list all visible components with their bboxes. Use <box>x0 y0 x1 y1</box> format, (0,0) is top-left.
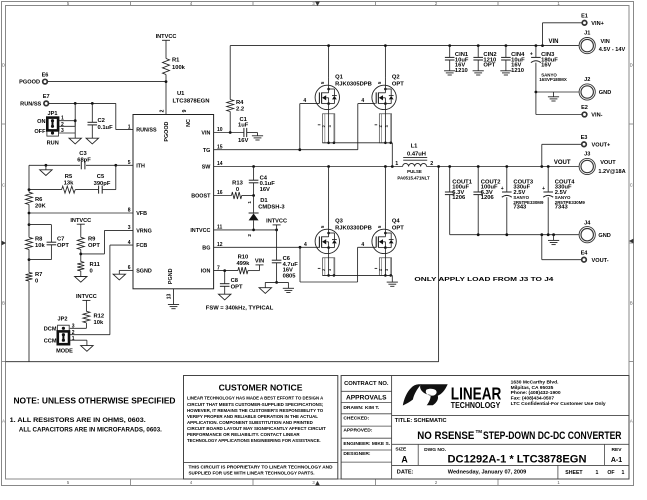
svg-text:VIN+: VIN+ <box>591 21 604 27</box>
svg-text:VOUT: VOUT <box>554 160 571 166</box>
svg-text:RJK0330DPB: RJK0330DPB <box>335 225 372 231</box>
resistor R10 499k <box>238 267 248 274</box>
svg-text:D1: D1 <box>260 198 268 204</box>
svg-text:LTC3878EGN: LTC3878EGN <box>173 99 210 105</box>
svg-text:10k: 10k <box>94 320 104 326</box>
svg-text:INTVCC: INTVCC <box>190 228 210 234</box>
svg-text:SW: SW <box>202 165 212 171</box>
svg-text:E3: E3 <box>581 135 588 141</box>
svg-text:E1: E1 <box>581 14 588 20</box>
ground (C6 left) <box>259 288 271 294</box>
svg-text:20K: 20K <box>35 203 46 209</box>
svg-text:B: B <box>630 301 633 306</box>
svg-text:B: B <box>2 301 5 306</box>
svg-text:3: 3 <box>61 128 64 134</box>
svg-text:16V: 16V <box>541 63 551 69</box>
svg-text:+: + <box>501 186 504 192</box>
svg-text:D: D <box>2 63 5 68</box>
svg-text:J3: J3 <box>584 152 590 158</box>
wire Q3/Q4 source bus + ground <box>323 274 393 276</box>
wire R5/C5 branch <box>29 189 62 191</box>
jack J4 GND <box>579 227 595 243</box>
svg-text:ION: ION <box>201 269 211 275</box>
svg-text:4.5V - 14V: 4.5V - 14V <box>599 47 626 53</box>
svg-text:VIN: VIN <box>601 39 610 45</box>
turret E7 <box>44 101 49 106</box>
svg-text:13k: 13k <box>64 181 74 187</box>
svg-text:4: 4 <box>304 242 307 248</box>
svg-text:VIN: VIN <box>548 39 558 45</box>
resistor R5 13k <box>62 186 76 193</box>
svg-text:16SVP180MX: 16SVP180MX <box>539 77 567 82</box>
svg-text:1206: 1206 <box>452 195 466 201</box>
svg-text:TECHNOLOGY: TECHNOLOGY <box>451 400 501 410</box>
svg-text:1210: 1210 <box>455 68 468 74</box>
svg-text:2: 2 <box>159 109 165 112</box>
svg-text:1206: 1206 <box>481 195 495 201</box>
svg-text:3: 3 <box>328 269 332 271</box>
svg-text:R10: R10 <box>238 254 249 260</box>
capacitor C4 0.1uF <box>253 167 255 181</box>
capacitor COUT2 100uF <box>477 167 479 193</box>
svg-text:VIN: VIN <box>255 259 264 265</box>
svg-text:R12: R12 <box>94 313 105 319</box>
contract/approvals column <box>391 376 393 480</box>
wire BG detour to Q4 <box>299 247 301 282</box>
svg-text:SUPPLIED FOR USE WITH LINEAR T: SUPPLIED FOR USE WITH LINEAR TECHNOLOGY … <box>189 471 316 477</box>
svg-text:7343: 7343 <box>513 204 527 210</box>
svg-text:3: 3 <box>72 323 75 329</box>
svg-text:INTVCC: INTVCC <box>70 218 91 224</box>
svg-text:INTVCC: INTVCC <box>156 34 177 40</box>
op-amp/controller U1 LTC3878EGN body <box>133 115 214 289</box>
svg-text:R5: R5 <box>65 174 73 180</box>
svg-text:16V: 16V <box>260 187 270 193</box>
svg-text:C7: C7 <box>57 237 64 243</box>
svg-text:DCM: DCM <box>44 326 57 332</box>
capacitor C8 OPT <box>224 271 226 284</box>
diode D1 CMDSH-3 <box>253 196 255 214</box>
svg-text:JP2: JP2 <box>58 317 68 323</box>
ground (JP1) <box>69 138 81 144</box>
capacitor CIN1 10uF <box>449 46 451 58</box>
svg-text:ON: ON <box>37 119 45 125</box>
wire TG net <box>214 149 358 151</box>
svg-text:ALL CAPACITORS ARE IN MICROFAR: ALL CAPACITORS ARE IN MICROFARADS, 0603. <box>19 426 162 433</box>
turret E4 VOUT- <box>541 235 543 260</box>
svg-text:KIM T.: KIM T. <box>365 405 380 411</box>
svg-text:C: C <box>630 183 633 188</box>
svg-text:D: D <box>630 63 633 68</box>
svg-text:VIN-: VIN- <box>591 113 602 119</box>
svg-text:BG: BG <box>202 245 210 251</box>
svg-text:PGOOD: PGOOD <box>19 80 40 86</box>
svg-text:VOUT+: VOUT+ <box>592 142 612 148</box>
svg-text:FSW = 340kHz, TYPICAL: FSW = 340kHz, TYPICAL <box>206 306 274 312</box>
svg-text:0: 0 <box>35 278 38 284</box>
wire VFB net <box>29 212 133 214</box>
resistor R7 0 <box>26 273 33 281</box>
capacitor C2 0.1uF <box>91 103 93 122</box>
svg-text:499k: 499k <box>236 261 250 267</box>
svg-text:1210: 1210 <box>511 68 524 74</box>
resistor R6 20K <box>26 192 33 204</box>
svg-text:E2: E2 <box>581 105 588 111</box>
svg-text:L1: L1 <box>411 144 419 150</box>
svg-text:5: 5 <box>320 225 325 228</box>
svg-text:SGND: SGND <box>136 269 152 275</box>
svg-text:A: A <box>2 419 5 424</box>
svg-text:OPT: OPT <box>231 284 243 290</box>
svg-text:SIZE: SIZE <box>395 447 407 453</box>
svg-text:E6: E6 <box>42 72 49 78</box>
transistor Q3 RJK0330DPB <box>328 167 330 222</box>
capacitor COUT1 100uF <box>449 167 451 193</box>
svg-text:2: 2 <box>72 330 75 336</box>
svg-text:RJK0305DPB: RJK0305DPB <box>335 81 372 87</box>
svg-text:MODE: MODE <box>56 349 73 355</box>
svg-text:PGOOD: PGOOD <box>164 121 170 141</box>
jack J2 GND <box>579 84 595 100</box>
svg-text:CCM: CCM <box>44 338 57 344</box>
svg-text:+: + <box>542 186 545 192</box>
svg-text:DWG NO.: DWG NO. <box>424 447 447 453</box>
svg-text:OPT: OPT <box>392 225 404 231</box>
svg-text:C: C <box>2 183 5 188</box>
svg-text:DESIGNER:: DESIGNER: <box>343 451 371 457</box>
resistor R12 10k <box>83 311 90 323</box>
svg-text:2: 2 <box>247 234 252 237</box>
svg-text:9: 9 <box>182 109 188 112</box>
svg-text:LINEAR TECHNOLOGY HAS MADE A B: LINEAR TECHNOLOGY HAS MADE A BEST EFFORT… <box>187 396 324 402</box>
svg-text:TECHNOLOGY APPLICATIONS ENGINE: TECHNOLOGY APPLICATIONS ENGINEERING FOR … <box>187 438 321 444</box>
svg-text:TITLE: SCHEMATIC: TITLE: SCHEMATIC <box>395 418 447 424</box>
svg-text:390pF: 390pF <box>94 181 111 187</box>
resistor R1 100k <box>163 59 170 75</box>
svg-text:NC: NC <box>186 119 192 127</box>
capacitor C3 68pF <box>80 161 86 169</box>
svg-text:0805: 0805 <box>283 274 297 280</box>
title block main box <box>341 376 629 480</box>
svg-text:C2: C2 <box>98 118 105 124</box>
svg-text:3: 3 <box>385 125 389 127</box>
wire VIN pin10 <box>214 132 244 134</box>
svg-text:INTVCC: INTVCC <box>266 219 287 225</box>
svg-text:STEP-DOWN DC-DC CONVERTER: STEP-DOWN DC-DC CONVERTER <box>483 430 622 442</box>
svg-text:OPT: OPT <box>483 63 495 69</box>
ground (R11) <box>75 277 87 283</box>
svg-text:2: 2 <box>430 161 433 167</box>
svg-text:DRAWN:: DRAWN: <box>343 405 363 411</box>
svg-text:2: 2 <box>322 125 326 127</box>
resistor R8 10k <box>28 223 31 226</box>
svg-text:5: 5 <box>377 81 382 84</box>
ground (C1) <box>257 133 259 136</box>
svg-text:TM: TM <box>476 429 483 434</box>
svg-text:0: 0 <box>236 187 239 193</box>
svg-text:Milpitas, CA 95035: Milpitas, CA 95035 <box>511 385 554 391</box>
capacitor C6 4.7uF <box>276 230 278 260</box>
capacitor COUT3 330uF <box>506 167 508 193</box>
svg-text:OPT: OPT <box>392 81 404 87</box>
svg-text:A: A <box>401 454 408 464</box>
wire VIN bus <box>230 45 579 47</box>
wire SW net <box>214 166 403 168</box>
ground (JP2) <box>81 346 93 352</box>
svg-text:1: 1 <box>247 201 252 204</box>
logo LT Linear Technology <box>403 384 422 405</box>
svg-text:1: 1 <box>61 116 64 122</box>
svg-text:ITH: ITH <box>136 163 145 169</box>
wire BOOST + resistor R13 0 <box>214 195 232 197</box>
capacitor C5 390pF <box>98 186 100 194</box>
svg-text:OF: OF <box>607 470 614 476</box>
size/dwg row <box>417 444 419 465</box>
turret E3 VOUT+ <box>541 144 543 166</box>
svg-text:0: 0 <box>90 269 93 275</box>
svg-text:E7: E7 <box>43 94 50 100</box>
svg-text:DC1292A-1 * LTC3878EGN: DC1292A-1 * LTC3878EGN <box>448 453 587 465</box>
ground (C2) <box>86 138 98 144</box>
svg-text:+: + <box>530 51 533 57</box>
svg-text:Q1: Q1 <box>335 75 344 81</box>
transistor Q2 OPT <box>372 85 396 109</box>
svg-text:VRNG: VRNG <box>136 229 152 235</box>
svg-text:R8: R8 <box>35 237 43 243</box>
svg-text:U1: U1 <box>177 91 185 97</box>
customer notice box <box>184 376 338 480</box>
svg-text:R11: R11 <box>90 262 101 268</box>
capacitor CIN3 180uF SANYO <box>535 46 537 58</box>
svg-text:OPT: OPT <box>88 243 100 249</box>
capacitor CIN2 OPT <box>477 46 479 58</box>
svg-text:J1: J1 <box>584 31 590 37</box>
svg-text:APPROVED:: APPROVED: <box>343 427 372 433</box>
svg-text:APPLICATION. COMPONENT SUBSTI: APPLICATION. COMPONENT SUBSTITUTION AND … <box>187 420 313 426</box>
svg-text:CONTRACT NO.: CONTRACT NO. <box>344 381 389 387</box>
capacitor C7 OPT <box>29 224 51 226</box>
svg-text:Wednesday, January 07, 2009: Wednesday, January 07, 2009 <box>448 470 526 476</box>
svg-text:PERFORMANCE OR RELIABILITY. C: PERFORMANCE OR RELIABILITY. CONTACT LINE… <box>187 432 300 438</box>
svg-text:2: 2 <box>379 125 383 127</box>
node INTVCC (pin11) <box>214 229 277 231</box>
wire SGND + ground <box>119 269 133 271</box>
svg-text:Phone: (408)432-1900: Phone: (408)432-1900 <box>511 390 561 396</box>
wire RUN/SS net <box>49 102 116 104</box>
svg-text:RUN/SS: RUN/SS <box>136 128 157 134</box>
wire ION net <box>214 270 238 272</box>
svg-text:10k: 10k <box>35 243 45 249</box>
svg-text:HOWEVER, IT REMAINS THE CUSTOM: HOWEVER, IT REMAINS THE CUSTOMER'S RESPO… <box>187 408 323 414</box>
svg-text:NO RSENSE: NO RSENSE <box>417 430 474 442</box>
svg-text:100k: 100k <box>172 65 186 71</box>
svg-text:5: 5 <box>320 81 325 84</box>
svg-text:ENGINEER: MIKE S.: ENGINEER: MIKE S. <box>343 441 390 447</box>
svg-text:Q2: Q2 <box>392 75 400 81</box>
ground (ITH) <box>40 170 52 176</box>
svg-text:INTVCC: INTVCC <box>76 294 97 300</box>
wire J2 gnd net <box>536 91 579 93</box>
svg-text:LTC Confidential-For Customer: LTC Confidential-For Customer Use Only <box>511 401 606 407</box>
wire VOUT feedback loop <box>438 167 440 362</box>
wire Q1 drain <box>328 46 330 78</box>
resistor R9 OPT <box>77 237 84 249</box>
svg-text:TG: TG <box>203 148 211 154</box>
svg-text:OFF: OFF <box>34 129 46 135</box>
ground (C8) <box>219 294 231 300</box>
svg-text:16V: 16V <box>238 138 248 144</box>
capacitor CIN4 10uF <box>505 46 507 58</box>
svg-text:E4: E4 <box>581 250 589 256</box>
svg-text:GND: GND <box>598 233 610 239</box>
svg-text:C5: C5 <box>97 174 105 180</box>
wire FCB net <box>110 244 133 246</box>
svg-text:NOTE: UNLESS OTHERWISE SPECIFI: NOTE: UNLESS OTHERWISE SPECIFIED <box>14 397 176 406</box>
svg-text:J2: J2 <box>584 77 590 83</box>
svg-text:1: 1 <box>395 161 398 167</box>
svg-text:GND: GND <box>599 90 611 96</box>
svg-text:1: 1 <box>72 336 75 342</box>
svg-text:VERIFY PROPER AND RELIABLE OPE: VERIFY PROPER AND RELIABLE OPERATION IN … <box>187 414 318 420</box>
node VIN tap <box>259 265 261 271</box>
svg-text:1. ALL RESISTORS ARE IN OHMS,: 1. ALL RESISTORS ARE IN OHMS, 0603. <box>10 417 146 424</box>
resistor R11 0 <box>77 262 84 271</box>
svg-text:C3: C3 <box>79 151 87 157</box>
svg-text:13: 13 <box>166 294 172 300</box>
svg-text:APPROVALS: APPROVALS <box>346 394 387 401</box>
svg-text:R4: R4 <box>236 100 244 106</box>
svg-text:VOUT: VOUT <box>600 160 616 166</box>
turret E1 VIN+ <box>542 23 544 46</box>
wire ITH net <box>29 164 116 166</box>
svg-text:THIS CIRCUIT IS PROPRIETARY TO: THIS CIRCUIT IS PROPRIETARY TO LINEAR TE… <box>189 465 333 471</box>
ground (COUT bus) <box>548 239 559 241</box>
ground PGND pin13 <box>173 289 175 304</box>
svg-text:BOOST: BOOST <box>191 194 211 200</box>
svg-text:5: 5 <box>377 225 382 228</box>
svg-text:2: 2 <box>322 269 326 271</box>
svg-text:R1: R1 <box>172 58 180 64</box>
svg-text:CUSTOMER NOTICE: CUSTOMER NOTICE <box>219 382 303 392</box>
svg-text:REV: REV <box>611 447 622 453</box>
svg-text:1: 1 <box>622 470 625 476</box>
wire COUT ground bus <box>450 234 579 236</box>
svg-text:0.47uH: 0.47uH <box>407 151 426 157</box>
svg-text:CIRCUIT BOARD LAYOUT MAY SIGNI: CIRCUIT BOARD LAYOUT MAY SIGNIFICANTLY A… <box>187 426 326 432</box>
svg-text:CHECKED:: CHECKED: <box>343 416 369 422</box>
svg-text:68pF: 68pF <box>77 157 91 163</box>
svg-text:1uF: 1uF <box>238 123 249 129</box>
capacitor COUT4 330uF <box>547 167 549 193</box>
svg-text:FCB: FCB <box>136 243 147 249</box>
svg-text:JP1: JP1 <box>48 111 58 117</box>
transistor Q4 OPT <box>384 167 386 222</box>
svg-text:A-1: A-1 <box>611 457 622 464</box>
svg-text:PULSE: PULSE <box>407 169 422 174</box>
svg-text:VIN: VIN <box>201 131 210 137</box>
ground (C6 right) <box>283 287 294 289</box>
svg-text:R7: R7 <box>35 272 42 278</box>
svg-text:RUN: RUN <box>47 141 59 147</box>
svg-text:2: 2 <box>379 269 383 271</box>
left rail wire <box>28 165 30 192</box>
svg-text:PGND: PGND <box>168 268 174 284</box>
svg-text:4: 4 <box>361 98 364 104</box>
svg-text:CIRCUIT THAT MEETS CUSTOMER-SU: CIRCUIT THAT MEETS CUSTOMER-SUPPLIED SPE… <box>187 402 324 408</box>
svg-text:0.1uF: 0.1uF <box>98 125 114 131</box>
svg-text:3: 3 <box>385 269 389 271</box>
resistor R4 2.2 <box>229 46 231 100</box>
svg-text:R13: R13 <box>232 180 243 186</box>
wire VRNG net <box>105 229 134 231</box>
svg-text:2: 2 <box>61 122 64 128</box>
svg-text:4: 4 <box>361 242 364 248</box>
svg-text:2.2: 2.2 <box>236 107 244 113</box>
svg-text:J4: J4 <box>584 221 591 227</box>
svg-text:VFB: VFB <box>136 211 147 217</box>
svg-text:DATE:: DATE: <box>397 470 414 476</box>
svg-text:C8: C8 <box>231 278 239 284</box>
svg-text:A: A <box>630 419 633 424</box>
wire C6 ground node <box>265 281 288 283</box>
svg-text:R6: R6 <box>35 197 43 203</box>
wire BG net <box>214 246 320 248</box>
svg-text:R9: R9 <box>88 237 96 243</box>
wire Q2 drain <box>384 46 386 78</box>
svg-text:CMDSH-3: CMDSH-3 <box>258 204 285 210</box>
svg-text:3: 3 <box>328 125 332 127</box>
svg-text:SHEET: SHEET <box>565 470 583 476</box>
svg-text:Q3: Q3 <box>335 219 344 225</box>
ground (J2) <box>548 96 559 98</box>
wire PGOOD net <box>47 81 166 83</box>
svg-text:RUN/SS: RUN/SS <box>20 102 41 108</box>
svg-text:VOUT-: VOUT- <box>592 258 609 264</box>
svg-text:7343: 7343 <box>555 204 569 210</box>
turret E6 <box>43 79 48 84</box>
wire Q1/Q2 source bus to SW <box>323 142 393 144</box>
svg-text:Fax: (408)434-0507: Fax: (408)434-0507 <box>511 396 555 402</box>
svg-text:PA0515.471NLT: PA0515.471NLT <box>397 176 430 181</box>
svg-text:Q4: Q4 <box>392 219 401 225</box>
turret E2 VIN- <box>536 114 582 116</box>
svg-text:1: 1 <box>596 470 599 476</box>
svg-text:1.2V@18A: 1.2V@18A <box>598 169 625 175</box>
capacitor C1 1uF <box>243 128 245 137</box>
svg-text:1630 McCarthy Blvd.: 1630 McCarthy Blvd. <box>511 379 559 385</box>
transistor Q1 RJK0305DPB <box>315 85 339 109</box>
svg-text:ONLY APPLY LOAD FROM J3 TO J4: ONLY APPLY LOAD FROM J3 TO J4 <box>414 277 554 283</box>
svg-text:4: 4 <box>303 98 306 104</box>
svg-text:OPT: OPT <box>57 243 69 249</box>
